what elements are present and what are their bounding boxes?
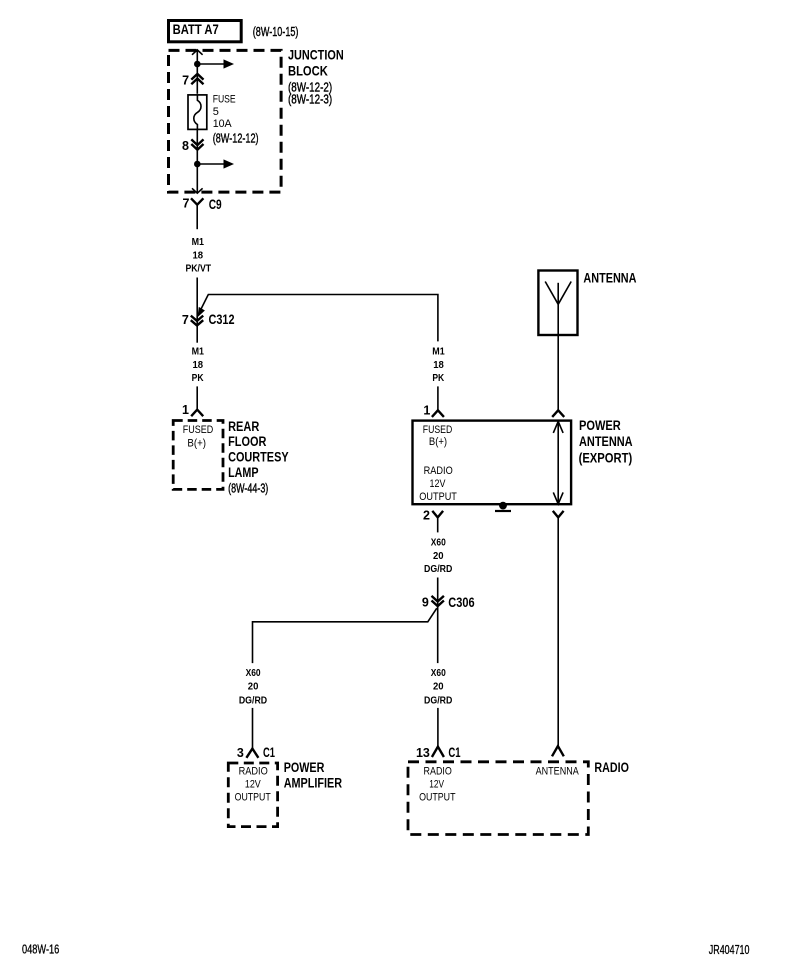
wire M1 18 PK (right branch) bbox=[432, 347, 445, 411]
svg-text:ANTENNA: ANTENNA bbox=[579, 434, 633, 449]
svg-text:POWER: POWER bbox=[284, 760, 325, 775]
wire branch arrow right 1 bbox=[197, 59, 234, 68]
svg-text:20: 20 bbox=[433, 551, 444, 562]
component ANTENNA box with antenna symbol bbox=[538, 271, 577, 336]
svg-text:C306: C306 bbox=[448, 595, 475, 610]
wire X60 20 DG/RD (left) bbox=[239, 668, 267, 749]
svg-text:(EXPORT): (EXPORT) bbox=[579, 450, 633, 465]
wire X60 20 DG/RD (upper) bbox=[424, 538, 452, 663]
svg-text:FUSED: FUSED bbox=[183, 424, 214, 436]
label FUSE 5 10A (8W-12-12) bbox=[213, 93, 259, 145]
svg-text:JR404710: JR404710 bbox=[709, 942, 750, 957]
label POWER ANTENNA (EXPORT) bbox=[579, 418, 633, 465]
svg-text:PK/VT: PK/VT bbox=[185, 264, 211, 275]
svg-text:7: 7 bbox=[183, 197, 190, 211]
wire M1 18 PK/VT bbox=[185, 237, 211, 343]
svg-text:7: 7 bbox=[182, 74, 189, 88]
svg-text:M1: M1 bbox=[432, 347, 445, 358]
wire antenna lead into power antenna bbox=[552, 335, 564, 417]
svg-text:13: 13 bbox=[416, 746, 430, 760]
wire branch to power amplifier bbox=[253, 608, 437, 663]
component RADIO dashed box bbox=[408, 762, 588, 835]
svg-text:3: 3 bbox=[237, 746, 244, 760]
svg-text:M1: M1 bbox=[192, 237, 205, 248]
svg-text:DG/RD: DG/RD bbox=[424, 695, 452, 706]
svg-text:RADIO: RADIO bbox=[594, 760, 629, 775]
svg-text:DG/RD: DG/RD bbox=[424, 564, 452, 575]
svg-text:FUSED: FUSED bbox=[423, 424, 453, 436]
svg-text:B(+): B(+) bbox=[429, 436, 447, 448]
svg-text:ANTENNA: ANTENNA bbox=[536, 766, 580, 778]
wire X60 20 DG/RD (right lower) bbox=[424, 668, 452, 747]
svg-text:18: 18 bbox=[193, 360, 204, 371]
svg-text:AMPLIFIER: AMPLIFIER bbox=[284, 776, 343, 791]
component POWER AMPLIFIER dashed box bbox=[228, 763, 277, 827]
component POWER ANTENNA (EXPORT) box bbox=[413, 421, 572, 505]
ground symbol on power antenna case bbox=[495, 502, 511, 512]
svg-text:LAMP: LAMP bbox=[228, 465, 258, 480]
svg-text:POWER: POWER bbox=[579, 418, 621, 433]
svg-text:PK: PK bbox=[192, 373, 205, 384]
pin 1 rear floor courtesy lamp bbox=[182, 403, 203, 417]
label RADIO bbox=[594, 760, 629, 775]
svg-text:X60: X60 bbox=[431, 538, 446, 549]
svg-text:(8W-12-3): (8W-12-3) bbox=[288, 93, 332, 107]
connector C306 pin 9 bbox=[422, 595, 475, 610]
svg-text:X60: X60 bbox=[431, 668, 446, 679]
svg-text:FUSE: FUSE bbox=[213, 93, 236, 105]
connector C9 pin 7 bbox=[183, 197, 222, 230]
svg-text:B(+): B(+) bbox=[187, 437, 206, 449]
label POWER AMPLIFIER bbox=[284, 760, 343, 791]
wire junction block exit with down arrow bbox=[192, 164, 203, 193]
svg-text:(8W-44-3): (8W-44-3) bbox=[228, 482, 268, 496]
svg-text:DG/RD: DG/RD bbox=[239, 695, 267, 706]
svg-text:COURTESY: COURTESY bbox=[228, 450, 289, 465]
svg-text:(8W-10-15): (8W-10-15) bbox=[253, 25, 299, 39]
svg-text:18: 18 bbox=[193, 251, 204, 262]
reference (8W-10-15) bbox=[253, 25, 299, 39]
fuse FUSE 5 10A symbol bbox=[188, 95, 207, 129]
label REAR FLOOR COURTESY LAMP (8W-44-3) bbox=[228, 419, 289, 496]
wire antenna lead power antenna to radio bbox=[552, 511, 564, 756]
footer drawing number JR404710 bbox=[709, 942, 750, 957]
svg-text:M1: M1 bbox=[192, 347, 205, 358]
svg-text:C1: C1 bbox=[263, 745, 275, 760]
connector C312 pin 7 bbox=[182, 312, 235, 327]
pin 2 power antenna bbox=[423, 509, 443, 533]
wire M1 18 PK (left) bbox=[192, 347, 205, 410]
wire antenna mast inside power antenna with arrows bbox=[553, 421, 563, 505]
svg-text:RADIO: RADIO bbox=[239, 766, 269, 778]
svg-text:1: 1 bbox=[423, 403, 430, 417]
pin 3 power amplifier bbox=[237, 745, 275, 760]
pin 7 junction block with double chevron up bbox=[182, 64, 203, 94]
svg-text:20: 20 bbox=[433, 682, 444, 693]
label ANTENNA bbox=[583, 270, 636, 285]
wire batt feed with up arrow bbox=[192, 50, 203, 64]
node junction dot 1 bbox=[194, 61, 201, 68]
svg-text:7: 7 bbox=[182, 313, 189, 327]
component BATT A7 bus box bbox=[169, 21, 242, 42]
wire branch to power antenna (horizontal) bbox=[198, 295, 438, 342]
svg-text:BLOCK: BLOCK bbox=[288, 63, 328, 78]
pin 1 power antenna bbox=[423, 403, 444, 417]
svg-text:ANTENNA: ANTENNA bbox=[583, 270, 636, 285]
svg-text:10A: 10A bbox=[213, 118, 233, 130]
svg-text:REAR: REAR bbox=[228, 419, 259, 434]
svg-text:X60: X60 bbox=[246, 668, 261, 679]
svg-text:FLOOR: FLOOR bbox=[228, 434, 266, 449]
svg-text:048W-16: 048W-16 bbox=[22, 941, 59, 956]
svg-text:2: 2 bbox=[423, 509, 430, 523]
label JUNCTION BLOCK (8W-12-2) (8W-12-3) bbox=[288, 48, 344, 107]
svg-text:C312: C312 bbox=[209, 312, 235, 327]
pin 8 junction block with double chevron down bbox=[182, 129, 203, 164]
svg-text:RADIO: RADIO bbox=[424, 766, 453, 778]
svg-text:12V: 12V bbox=[430, 478, 446, 490]
svg-text:JUNCTION: JUNCTION bbox=[288, 48, 344, 63]
svg-text:OUTPUT: OUTPUT bbox=[235, 791, 271, 803]
junction block dashed outline bbox=[169, 50, 282, 192]
svg-text:12V: 12V bbox=[245, 779, 261, 791]
svg-text:OUTPUT: OUTPUT bbox=[419, 792, 456, 804]
wire branch arrow right 2 bbox=[197, 159, 234, 168]
footer sheet number 048W-16 bbox=[22, 941, 59, 956]
pin 13 radio bbox=[416, 745, 461, 760]
svg-text:18: 18 bbox=[433, 360, 444, 371]
svg-text:C9: C9 bbox=[209, 197, 222, 212]
node junction dot 2 bbox=[194, 161, 201, 168]
svg-text:C1: C1 bbox=[448, 745, 461, 760]
svg-text:12V: 12V bbox=[429, 778, 444, 790]
svg-text:RADIO: RADIO bbox=[424, 465, 453, 477]
svg-text:8: 8 bbox=[182, 139, 189, 153]
svg-text:20: 20 bbox=[248, 682, 259, 693]
svg-text:5: 5 bbox=[213, 106, 219, 118]
svg-text:(8W-12-12): (8W-12-12) bbox=[213, 132, 259, 146]
svg-text:OUTPUT: OUTPUT bbox=[419, 491, 457, 503]
svg-text:9: 9 bbox=[422, 596, 429, 610]
svg-text:BATT A7: BATT A7 bbox=[173, 22, 219, 37]
component REAR FLOOR COURTESY LAMP dashed box bbox=[173, 421, 223, 490]
svg-text:PK: PK bbox=[432, 373, 445, 384]
svg-text:1: 1 bbox=[182, 403, 189, 417]
